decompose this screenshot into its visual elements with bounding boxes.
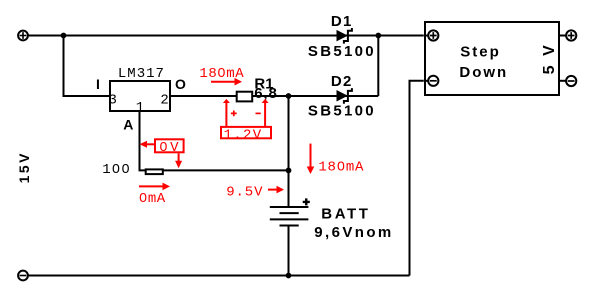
annotation plus polarity red	[231, 111, 237, 117]
annotation 1.2V box	[221, 127, 271, 138]
annotation 180mA top arrow	[211, 78, 242, 86]
svg-text:A: A	[123, 116, 133, 132]
svg-text:Down: Down	[459, 64, 508, 81]
terminal ground	[18, 271, 28, 281]
wire battery bottom to ground rail	[288, 226, 290, 276]
node top junction	[61, 33, 67, 39]
svg-text:15V: 15V	[16, 151, 32, 183]
diode D2	[337, 88, 352, 104]
wire to LM317 input	[64, 36, 110, 97]
svg-text:9,6Vnom: 9,6Vnom	[314, 224, 393, 241]
svg-text:9.5V: 9.5V	[226, 184, 263, 200]
svg-text:1.2V: 1.2V	[224, 127, 263, 143]
svg-text:180mA: 180mA	[318, 159, 364, 175]
diode D1	[337, 28, 352, 44]
annotation 0mA arrow	[139, 183, 170, 191]
wire bottom rail	[28, 275, 410, 277]
terminal step-down output plus	[566, 30, 576, 40]
step-down converter box	[425, 22, 559, 95]
battery BATT plates	[270, 207, 309, 226]
regulator U1 LM317 box	[110, 81, 170, 111]
annotation 0V arrow left	[140, 141, 155, 148]
resistor 100	[146, 169, 163, 174]
node D1-D2 junction	[375, 33, 381, 39]
wire stub to input plus	[424, 35, 429, 37]
svg-text:3: 3	[109, 92, 117, 108]
wire D2 cathode up to top rail	[377, 36, 379, 97]
terminal step-down input plus	[428, 30, 438, 40]
wire top rail	[28, 35, 424, 37]
svg-text:LM317: LM317	[118, 66, 165, 82]
annotation minus polarity red	[256, 112, 261, 114]
annotation 0mA text	[139, 191, 166, 207]
annotation 0V text	[159, 140, 181, 156]
terminal step-down output minus	[566, 76, 576, 86]
node output junction	[286, 93, 292, 99]
value 100	[102, 162, 131, 178]
annotation 0V arrow down	[175, 153, 182, 168]
svg-text:SB5100: SB5100	[308, 43, 376, 60]
annotation 180mA battery text	[318, 159, 364, 175]
annotation 1.2V measure arrows	[223, 99, 269, 126]
svg-text:2: 2	[160, 92, 168, 108]
svg-text:D1: D1	[331, 13, 353, 30]
annotation 180mA top text	[199, 66, 244, 82]
node ground junction	[286, 273, 292, 279]
annotation 180mA battery arrow	[307, 144, 315, 174]
svg-text:0mA: 0mA	[139, 191, 166, 207]
svg-text:D2: D2	[331, 73, 353, 90]
terminal step-down input minus	[428, 76, 438, 86]
svg-text:6,8: 6,8	[254, 85, 278, 102]
svg-text:1: 1	[136, 100, 144, 116]
annotation 0V box	[155, 139, 184, 152]
annotation 9.5V arrow	[268, 186, 284, 194]
wire node to battery top	[288, 96, 290, 207]
wire stub to output minus	[560, 80, 566, 82]
node adjust junction	[286, 168, 292, 174]
wire stub to input minus	[424, 80, 429, 82]
wire LM317 adjust down and right	[140, 111, 289, 170]
wire return to step-down minus	[410, 81, 424, 276]
wire stub to output plus	[560, 35, 566, 37]
svg-text:180mA: 180mA	[199, 66, 244, 82]
svg-text:5 V: 5 V	[541, 43, 558, 75]
svg-text:SB5100: SB5100	[308, 103, 376, 120]
terminal +15V input	[18, 31, 28, 41]
svg-text:Step: Step	[460, 43, 501, 60]
wire node to D2	[289, 95, 379, 97]
svg-text:I: I	[96, 76, 100, 92]
resistor R1	[237, 92, 253, 102]
svg-text:BATT: BATT	[321, 205, 370, 222]
svg-text:100: 100	[102, 162, 131, 178]
battery plus polarity mark	[303, 198, 310, 205]
wire LM317 output to node	[170, 95, 289, 97]
svg-text:O: O	[175, 76, 186, 92]
